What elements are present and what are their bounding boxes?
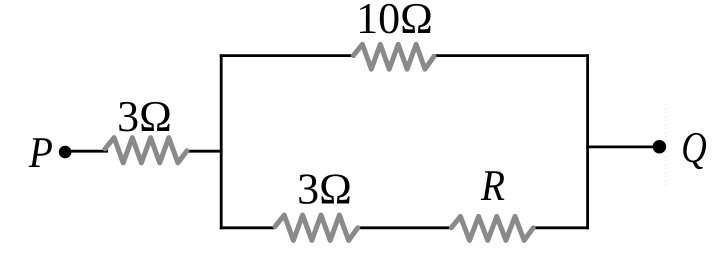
svg-text:10Ω: 10Ω xyxy=(356,0,433,43)
svg-text:Q: Q xyxy=(681,123,707,172)
svg-text:3Ω: 3Ω xyxy=(297,164,352,213)
svg-text:R: R xyxy=(480,161,505,210)
svg-text:3Ω: 3Ω xyxy=(117,92,172,141)
svg-text:P: P xyxy=(28,128,53,177)
